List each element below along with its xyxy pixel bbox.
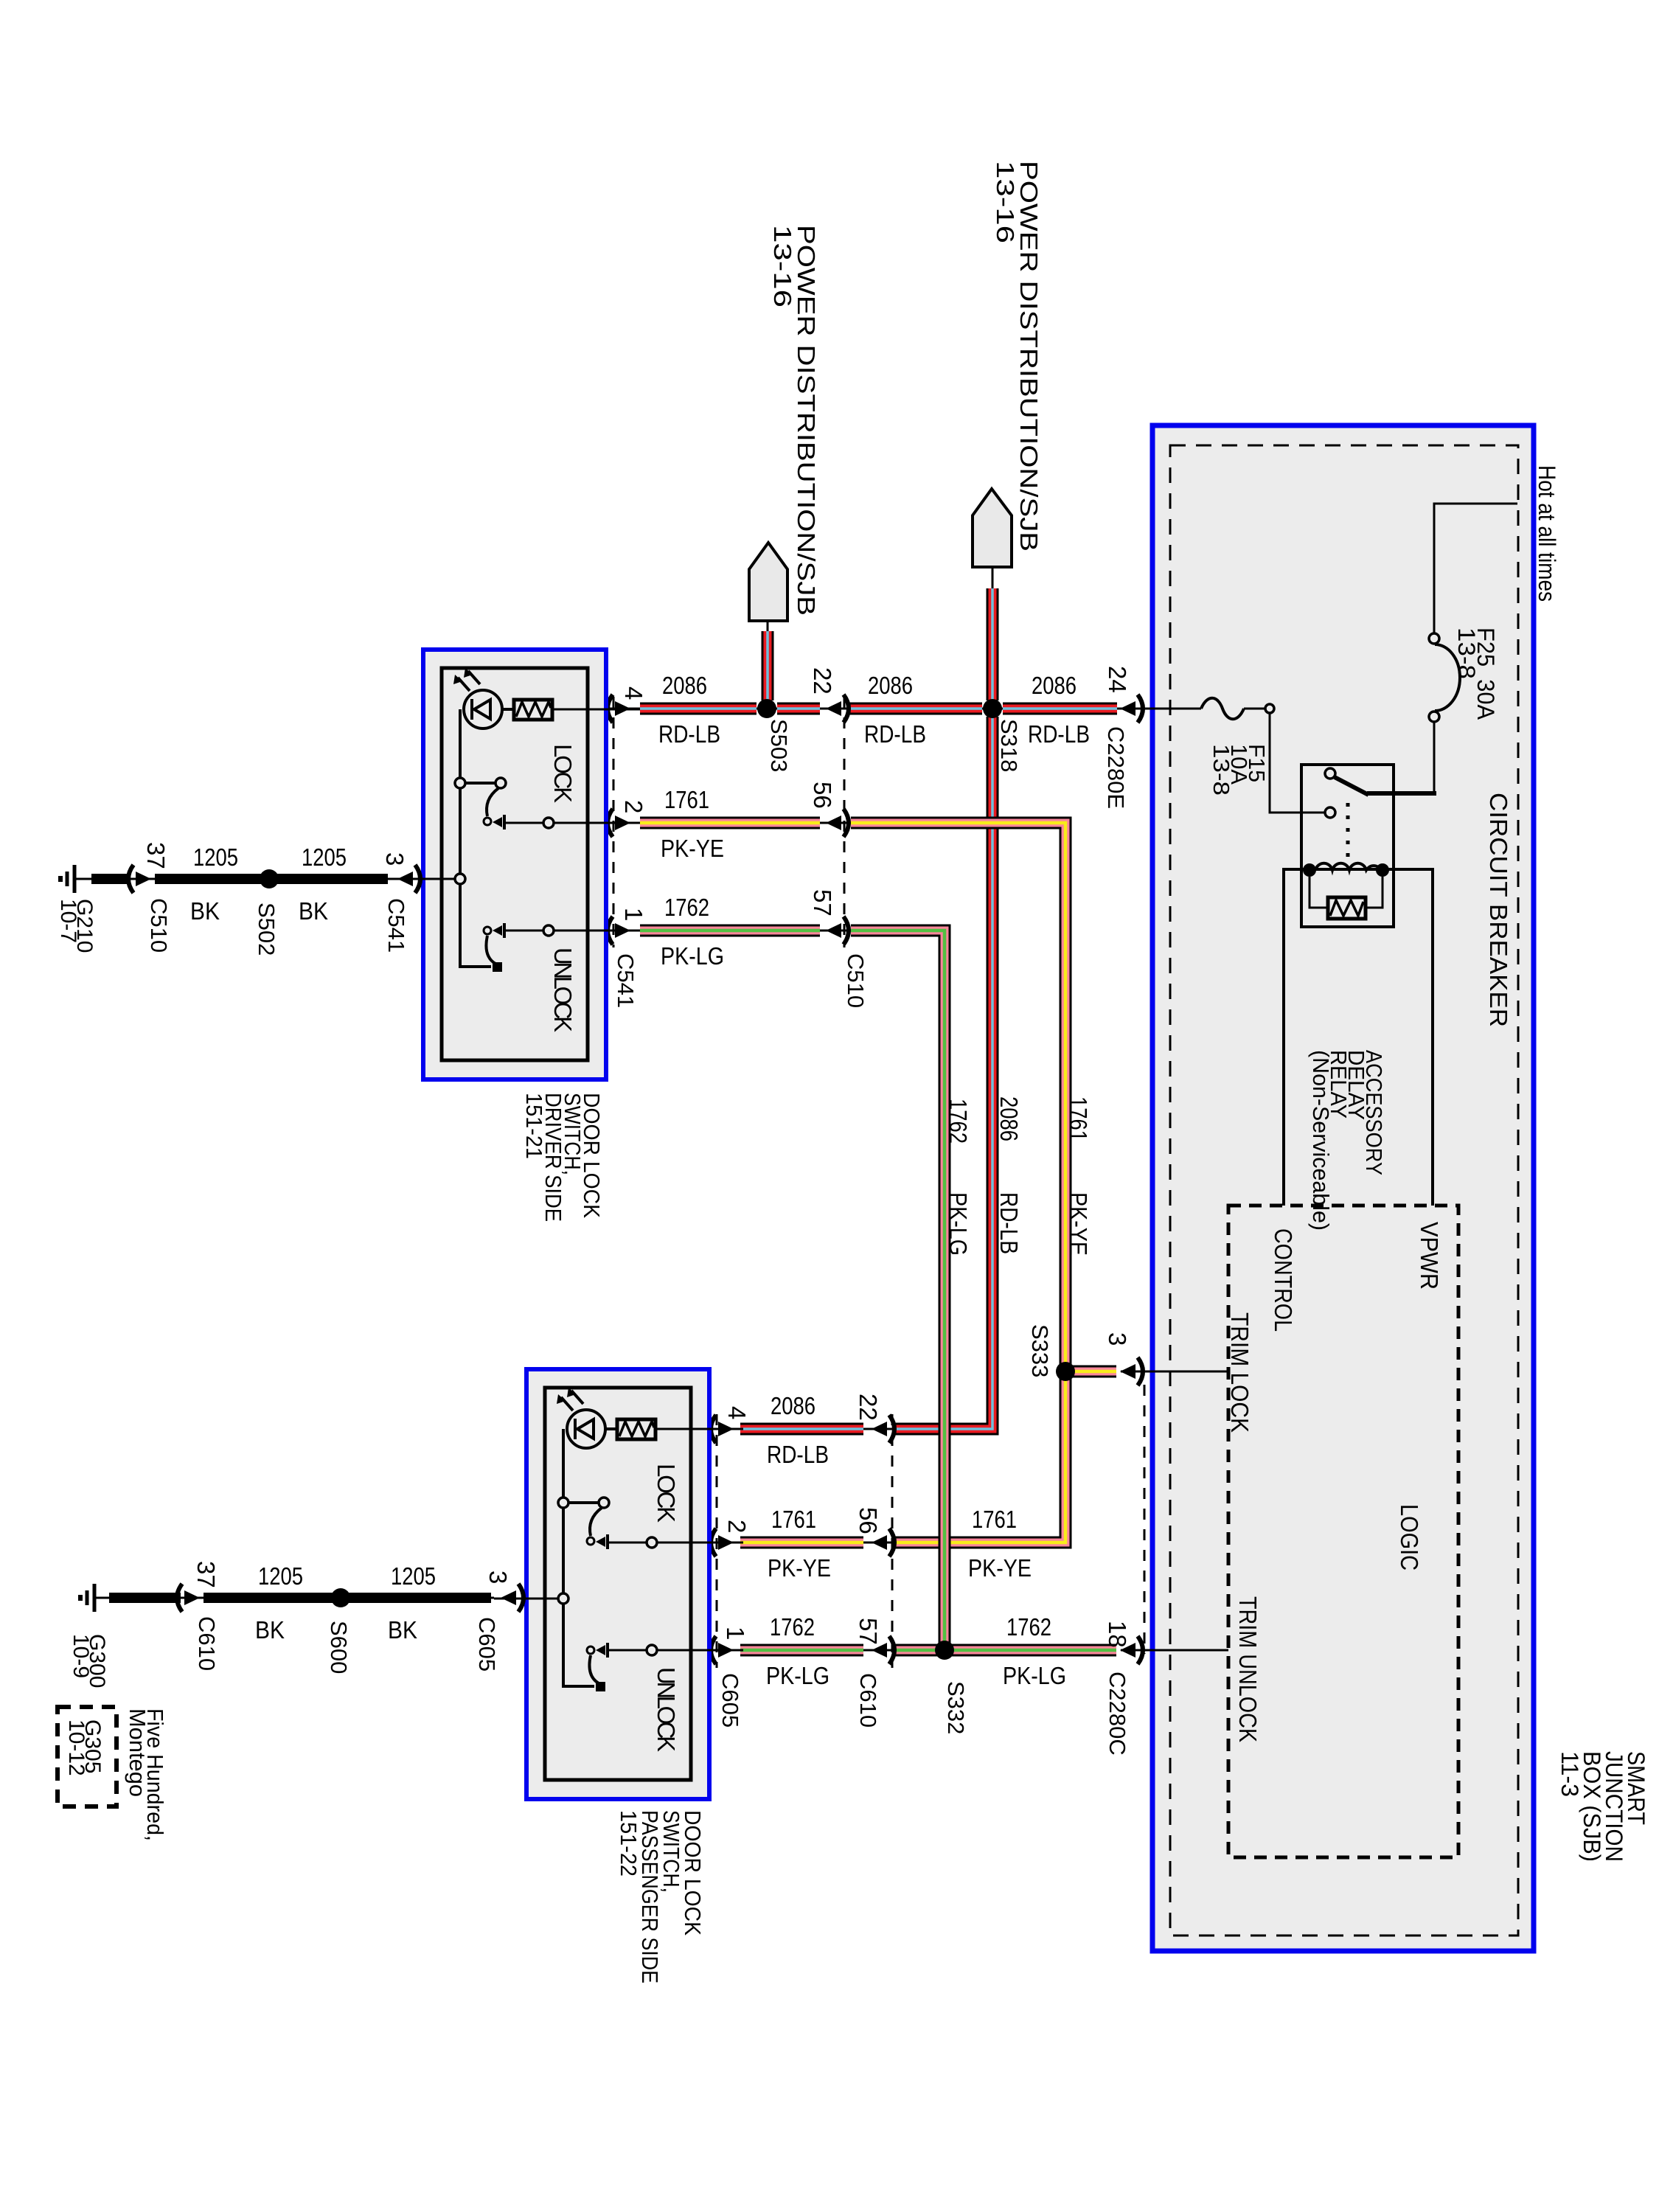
- svg-text:2086: 2086: [1032, 672, 1077, 699]
- svg-text:CIRCUIT BREAKER: CIRCUIT BREAKER: [1485, 793, 1512, 1027]
- UNLOCK switch contact: [484, 927, 491, 934]
- svg-text:BK: BK: [190, 897, 220, 925]
- arrow driver pin 4: [608, 695, 630, 723]
- svg-text:Montego: Montego: [125, 1708, 150, 1797]
- svg-text:151-22: 151-22: [616, 1810, 641, 1877]
- label DOOR LOCK SWITCH DRIVER SIDE 151-21: [521, 1093, 605, 1222]
- splice label S502: [254, 902, 279, 956]
- arrow 3 C541 driver pin3: [397, 865, 420, 893]
- LED lamp: [464, 690, 502, 728]
- relay switch blade: [1325, 768, 1368, 818]
- svg-text:1: 1: [722, 1627, 749, 1640]
- arrow driver pin 2: [608, 809, 630, 837]
- splice label S333: [1027, 1324, 1053, 1377]
- label POWER DISTRIBUTION/SJB 13-16 first: [769, 225, 820, 616]
- svg-text:1: 1: [620, 908, 647, 921]
- connector label C610 chain: [194, 1616, 220, 1671]
- svg-text:C2280E: C2280E: [1103, 726, 1129, 809]
- svg-text:PK-YE: PK-YE: [768, 1554, 831, 1582]
- label DOOR LOCK SWITCH PASSENGER SIDE 151-22: [616, 1810, 706, 1983]
- svg-text:2: 2: [620, 800, 647, 813]
- pin number 24: [1104, 666, 1131, 693]
- svg-text:1205: 1205: [193, 844, 238, 871]
- label Five Hundred Montego: [125, 1708, 168, 1841]
- relay box: [1301, 765, 1394, 927]
- svg-text:S333: S333: [1027, 1324, 1053, 1377]
- connector label C510 chain: [146, 898, 172, 953]
- svg-text:C605: C605: [474, 1617, 500, 1672]
- svg-text:TRIM LOCK: TRIM LOCK: [1226, 1312, 1253, 1433]
- label F25 30A 13-8: [1453, 627, 1499, 720]
- thin wire under driver pin1 row: [606, 930, 857, 932]
- junction S318: [983, 699, 1002, 718]
- label ACCESSORY DELAY RELAY: [1308, 1050, 1387, 1231]
- wire 1761 PK-YE long run C510 to S333 to passenger C610: [851, 823, 1065, 1543]
- svg-text:S600: S600: [326, 1621, 352, 1674]
- LOCK throw contact: [493, 817, 502, 827]
- svg-text:RD-LB: RD-LB: [1028, 720, 1090, 748]
- splice label S600: [326, 1621, 352, 1674]
- svg-text:UNLOCK: UNLOCK: [549, 947, 577, 1032]
- ground G300: [80, 1584, 94, 1612]
- wire 2086 RD-LB passenger pin4 segment: [740, 1423, 863, 1436]
- svg-text:TRIM UNLOCK: TRIM UNLOCK: [1234, 1596, 1262, 1742]
- splice label S503: [766, 719, 792, 772]
- svg-text:18: 18: [1104, 1621, 1131, 1648]
- svg-text:C2280C: C2280C: [1105, 1672, 1130, 1756]
- svg-text:1205: 1205: [258, 1562, 303, 1590]
- connector C510 dashed line: [844, 697, 846, 947]
- pin number 37 driver: [142, 842, 170, 869]
- wire BK driver ground chain: [74, 878, 391, 880]
- svg-text:C610: C610: [855, 1673, 881, 1728]
- internal bus wire: [460, 709, 491, 967]
- arrow 56 driver: [826, 809, 849, 837]
- SJB inner dashed border: [1170, 445, 1518, 1935]
- svg-text:4: 4: [723, 1406, 751, 1419]
- label 1205 BK passenger segment 1: [255, 1562, 303, 1644]
- pin number 56 driver: [809, 782, 836, 809]
- connector C541 dashed line: [613, 697, 615, 947]
- ground G210: [60, 865, 74, 893]
- junction S333: [1056, 1362, 1075, 1381]
- wire 2086 RD-LB segment C510 to S318: [849, 703, 982, 715]
- svg-text:1762: 1762: [1006, 1613, 1051, 1641]
- svg-text:2086: 2086: [771, 1392, 815, 1419]
- wire 1762 PK-LG driver pin1 segment: [640, 925, 820, 937]
- label 2086 RD-LB bus segment 3: [1028, 672, 1090, 748]
- pin number 4 driver: [620, 686, 647, 700]
- connector label C610 dashed: [855, 1673, 881, 1728]
- pin number 2 passenger: [723, 1520, 751, 1533]
- pin number 3 driver: [381, 852, 408, 866]
- arrow 18 C2280C: [1120, 1636, 1143, 1664]
- fuse F15: [1117, 698, 1274, 720]
- ground label G210 10-7: [56, 899, 97, 953]
- svg-text:22: 22: [809, 667, 836, 695]
- svg-text:3: 3: [484, 1571, 512, 1584]
- TRIM LOCK wire inside SJB: [1140, 1371, 1228, 1373]
- svg-text:PK-LG: PK-LG: [661, 942, 724, 970]
- wire 2086 RD-LB segment pin4 to S503: [640, 703, 757, 715]
- svg-text:PK-YE: PK-YE: [968, 1554, 1032, 1582]
- label Hot at all times: [1534, 465, 1560, 602]
- svg-text:1205: 1205: [391, 1562, 436, 1590]
- label 1205 BK driver segment 2: [299, 844, 347, 925]
- relay shunt resistor: [1310, 877, 1382, 919]
- svg-text:BK: BK: [255, 1616, 285, 1644]
- pin number 37 passenger: [192, 1561, 220, 1588]
- arrow passenger pin 4: [711, 1415, 734, 1443]
- pin number 22 driver: [809, 667, 836, 695]
- svg-text:10-9: 10-9: [69, 1634, 93, 1678]
- svg-text:C610: C610: [194, 1616, 220, 1671]
- svg-text:57: 57: [855, 1618, 882, 1645]
- wire 2086 RD-LB segment S318 to C2280E: [1003, 703, 1117, 715]
- svg-text:1205: 1205: [302, 844, 347, 871]
- svg-text:57: 57: [809, 889, 836, 917]
- thin wire under passenger pin1 row: [709, 1649, 901, 1652]
- svg-text:13-8: 13-8: [1453, 627, 1480, 679]
- svg-text:S332: S332: [943, 1681, 969, 1734]
- label CIRCUIT BREAKER: [1485, 793, 1512, 1027]
- svg-text:VPWR: VPWR: [1416, 1222, 1443, 1290]
- splice label S318: [996, 719, 1022, 772]
- wire breaker to relay switch: [1367, 722, 1436, 793]
- svg-text:37: 37: [192, 1561, 220, 1588]
- wire 1762 PK-LG passenger pin1 segment: [740, 1644, 863, 1657]
- svg-text:2086: 2086: [995, 1096, 1023, 1141]
- pin number 22 passenger: [855, 1394, 882, 1421]
- svg-text:24: 24: [1104, 666, 1131, 693]
- pin 3 tap on bus: [455, 874, 465, 884]
- svg-text:C510: C510: [843, 953, 869, 1008]
- svg-text:BK: BK: [388, 1616, 417, 1644]
- svg-text:1761: 1761: [972, 1506, 1017, 1533]
- pentagon off-page connector above S318: [973, 489, 1012, 567]
- svg-text:LOGIC: LOGIC: [1396, 1504, 1423, 1571]
- svg-text:1761: 1761: [1065, 1096, 1092, 1141]
- svg-text:1762: 1762: [945, 1099, 972, 1144]
- svg-text:1762: 1762: [770, 1613, 815, 1641]
- svg-text:13-8: 13-8: [1208, 744, 1234, 796]
- arrow 37 C510 driver: [128, 865, 151, 893]
- wire LED to resistor: [502, 708, 514, 711]
- arrow 56 passenger: [872, 1528, 894, 1557]
- smart junction box SJB outline: [1152, 425, 1534, 1951]
- pin number 3 passenger: [484, 1571, 512, 1584]
- arrow passenger pin 2: [711, 1528, 734, 1557]
- connector label C605 dashed: [717, 1673, 743, 1728]
- svg-text:13-16: 13-16: [992, 161, 1019, 243]
- wire 1761 PK-YE driver pin2 segment: [640, 817, 820, 829]
- wire from Hot at all times feed: [1434, 504, 1517, 639]
- wire 1762 PK-LG segment S332 to C2280C TRIM UNLOCK: [945, 1644, 1116, 1657]
- connector label C2280C: [1105, 1672, 1130, 1756]
- connector label C510 dashed: [843, 953, 869, 1008]
- svg-text:1761: 1761: [771, 1506, 816, 1533]
- connector C605 dashed line: [716, 1414, 718, 1668]
- svg-text:S502: S502: [254, 902, 279, 956]
- thin wire resistor to pin 4: [552, 709, 640, 711]
- label CONTROL: [1270, 1228, 1297, 1332]
- connector C610 dashed line: [891, 1414, 894, 1668]
- svg-text:3: 3: [381, 852, 408, 866]
- svg-text:RD-LB: RD-LB: [995, 1192, 1023, 1254]
- arrow driver pin 1: [608, 917, 630, 945]
- thin wire under passenger pin4 row: [709, 1428, 901, 1430]
- svg-text:56: 56: [809, 782, 836, 809]
- svg-text:4: 4: [620, 686, 647, 700]
- door lock switch passenger side box: [494, 1369, 743, 1799]
- arrow 22 passenger: [872, 1415, 894, 1443]
- G305 dashed box: [58, 1707, 116, 1806]
- LOCK switch common tap: [455, 778, 465, 788]
- label 1762 PK-LG passenger pin1 right: [1003, 1613, 1066, 1689]
- wire RD-LB stub S503 pentagon: [767, 621, 769, 700]
- label TRIM UNLOCK: [1234, 1596, 1262, 1742]
- svg-text:PK-LG: PK-LG: [945, 1192, 972, 1256]
- arrow 57 driver: [826, 917, 849, 945]
- label 1762 PK-LG passenger pin1 left: [766, 1613, 829, 1689]
- thin wire under main power bus row: [606, 708, 1201, 710]
- accessory delay relay open box / VPWR + CONTROL wires: [1284, 869, 1433, 1206]
- pin number 57 driver: [809, 889, 836, 917]
- relay actuator dotted line: [1346, 803, 1350, 864]
- junction S600: [331, 1588, 350, 1607]
- LOGIC dashed box: [1228, 1206, 1458, 1857]
- junction S503: [757, 699, 776, 718]
- svg-text:PK-LG: PK-LG: [766, 1662, 829, 1689]
- connector label C605 chain: [474, 1617, 500, 1672]
- wire F15 to relay contact: [1270, 714, 1325, 813]
- UNLOCK switch arc blade: [486, 936, 495, 964]
- svg-text:S503: S503: [766, 719, 792, 772]
- pin number 57 passenger: [855, 1618, 882, 1645]
- svg-text:(Non-Serviceable): (Non-Serviceable): [1308, 1050, 1334, 1231]
- label TRIM LOCK: [1226, 1312, 1253, 1433]
- svg-text:PK-LG: PK-LG: [1003, 1662, 1066, 1689]
- relay coil: [1303, 863, 1389, 877]
- arrow passenger pin 1: [711, 1636, 734, 1664]
- arrow 57 passenger: [872, 1636, 894, 1664]
- pin number 18: [1104, 1621, 1131, 1648]
- resistor in switch box: [514, 700, 552, 720]
- svg-text:3: 3: [1104, 1332, 1131, 1346]
- svg-text:151-21: 151-21: [521, 1093, 547, 1159]
- svg-text:1761: 1761: [664, 786, 709, 813]
- pin number 1 driver: [620, 908, 647, 921]
- thin wire under driver pin2 row: [606, 822, 857, 824]
- svg-text:PK-YE: PK-YE: [1065, 1192, 1092, 1256]
- wire 1761 PK-YE passenger pin2 segment: [740, 1537, 863, 1549]
- label F15 10A 13-8: [1208, 744, 1270, 796]
- pin number 3 TRIM LOCK: [1104, 1332, 1131, 1346]
- wire 2086 RD-LB vertical S318 down to passenger C610: [894, 717, 992, 1429]
- arrow 3 TRIM LOCK C2280E side: [1120, 1357, 1143, 1385]
- label 1761 PK-YE passenger pin2 left: [768, 1506, 831, 1582]
- label 1762 PK-LG vertical run: [945, 1099, 972, 1256]
- wire 1762 PK-LG long run C510 down to S332: [851, 931, 945, 1650]
- wire RD-LB stub S318 pentagon: [992, 567, 994, 700]
- svg-text:C541: C541: [613, 953, 639, 1008]
- svg-text:LOCK: LOCK: [549, 744, 577, 803]
- ground label G305 10-12: [64, 1719, 105, 1776]
- thin wire under passenger pin2 row: [709, 1542, 901, 1544]
- svg-text:S318: S318: [996, 719, 1022, 772]
- svg-text:RD-LB: RD-LB: [658, 720, 720, 748]
- label 2086 RD-LB passenger pin4: [767, 1392, 829, 1468]
- svg-text:13-16: 13-16: [769, 225, 796, 307]
- arrow 3 C605 passenger pin3: [501, 1584, 524, 1612]
- svg-text:RD-LB: RD-LB: [864, 720, 926, 748]
- wire 2086 RD-LB segment S503 to C510: [777, 703, 820, 715]
- label 1762 PK-LG driver pin1: [661, 894, 724, 970]
- switch box blue outline: [423, 650, 606, 1079]
- svg-text:2086: 2086: [868, 672, 913, 699]
- pin number 2 driver: [620, 800, 647, 813]
- svg-text:22: 22: [855, 1394, 882, 1421]
- label 1761 PK-YE passenger pin2 right: [968, 1506, 1032, 1582]
- thin wire UNLOCK contact to pin 1: [506, 930, 640, 932]
- svg-text:2: 2: [723, 1520, 751, 1533]
- label POWER DISTRIBUTION/SJB 13-16 second: [992, 161, 1043, 552]
- svg-text:Hot at all times: Hot at all times: [1534, 465, 1560, 602]
- svg-text:11-3: 11-3: [1557, 1751, 1583, 1797]
- label 2086 RD-LB bus segment 2: [864, 672, 926, 748]
- svg-text:10-7: 10-7: [56, 899, 80, 943]
- label 1761 PK-YE driver pin2: [661, 786, 724, 862]
- svg-text:C605: C605: [717, 1673, 743, 1728]
- door lock switch driver side box: [391, 650, 640, 1079]
- pentagon off-page connector above S503: [749, 543, 787, 621]
- arrow 24 C2280E: [1120, 695, 1143, 723]
- wire 1761 PK-YE stub S333 to TRIM LOCK pin 3: [1065, 1366, 1116, 1378]
- pin number 1 passenger: [722, 1627, 749, 1640]
- label 1205 BK passenger segment 2: [388, 1562, 436, 1644]
- svg-text:37: 37: [142, 842, 170, 869]
- switch box inner black rect: [442, 668, 588, 1060]
- label 2086 RD-LB vertical run: [995, 1096, 1023, 1254]
- svg-text:CONTROL: CONTROL: [1270, 1228, 1297, 1332]
- label 1761 PK-YE vertical run: [1065, 1096, 1092, 1256]
- svg-text:C541: C541: [383, 898, 409, 953]
- svg-text:BK: BK: [299, 897, 328, 925]
- splice label S332: [943, 1681, 969, 1734]
- connector label C541 dashed: [613, 953, 639, 1008]
- connector C2280C dashed line: [1144, 1385, 1146, 1654]
- label VPWR: [1416, 1222, 1443, 1290]
- thin wire LOCK contact to pin 2: [506, 822, 640, 824]
- svg-text:RD-LB: RD-LB: [767, 1441, 829, 1468]
- svg-text:C510: C510: [146, 898, 172, 953]
- label 1205 BK driver segment 1: [190, 844, 238, 925]
- svg-text:PK-YE: PK-YE: [661, 835, 724, 862]
- thin wire at TRIM LOCK connector: [1121, 1371, 1228, 1373]
- wire BK passenger ground chain: [94, 1597, 494, 1599]
- connector label C2280E: [1103, 726, 1129, 809]
- label LOGIC: [1396, 1504, 1423, 1571]
- LOCK switch arc blade: [487, 788, 498, 816]
- label SMART JUNCTION BOX (SJB) 11-3: [1557, 1751, 1649, 1862]
- connector label C541 pin3: [383, 898, 409, 953]
- svg-text:1762: 1762: [664, 894, 709, 921]
- ground label G300 10-9: [69, 1634, 109, 1688]
- pin number 56 passenger: [855, 1507, 882, 1534]
- junction S502: [260, 869, 279, 888]
- svg-text:56: 56: [855, 1507, 882, 1534]
- arrow 22 driver: [826, 695, 849, 723]
- TRIM UNLOCK wire inside SJB: [1140, 1649, 1228, 1652]
- thin wire at TRIM UNLOCK connector: [1121, 1649, 1228, 1652]
- circuit breaker F25: [1429, 633, 1460, 722]
- svg-text:2086: 2086: [662, 672, 707, 699]
- pin number 4 passenger: [723, 1406, 751, 1419]
- label 2086 RD-LB bus segment 1: [658, 672, 720, 748]
- arrow 37 C610 passenger: [177, 1584, 200, 1612]
- junction S332: [935, 1641, 954, 1660]
- svg-text:10-12: 10-12: [64, 1719, 88, 1776]
